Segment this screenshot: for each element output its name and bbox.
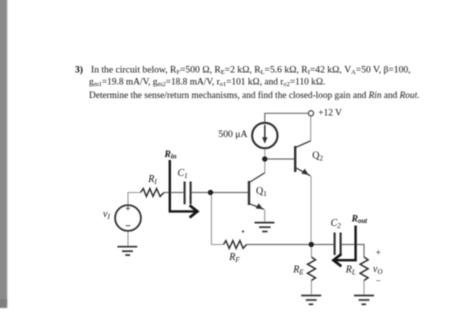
terminal +12V <box>309 111 314 116</box>
svg-text:In the circuit below, RF=500 Ω: In the circuit below, RF=500 Ω, RE=2 kΩ,… <box>91 64 411 76</box>
wire C1 to Q1 base <box>192 192 248 194</box>
speck artifact <box>242 230 244 232</box>
svg-text:C2: C2 <box>331 218 342 230</box>
current source I 500uA <box>252 123 277 148</box>
resistor RE <box>308 257 316 281</box>
wire vI to R_I <box>128 193 141 206</box>
ground (vI) <box>117 247 137 255</box>
svg-text:+12 V: +12 V <box>318 108 342 118</box>
svg-text:Rout: Rout <box>351 215 369 225</box>
svg-text:gm1=19.8 mA/V, gm2=18.8 mA/V,: gm1=19.8 mA/V, gm2=18.8 mA/V, ro1=101 kΩ… <box>89 77 325 88</box>
capacitor C2 <box>335 233 341 256</box>
wire output node to RE <box>310 245 312 258</box>
wire feedback node down to RF <box>211 193 223 245</box>
svg-text:Q1: Q1 <box>256 186 267 198</box>
svg-text:RL: RL <box>345 265 356 277</box>
Rout measure arrow <box>334 226 356 267</box>
svg-text:−: − <box>376 275 381 285</box>
svg-text:RF: RF <box>228 252 240 264</box>
svg-text:Determine the sense/return mec: Determine the sense/return mechanisms, a… <box>89 90 420 101</box>
wire C2 to RL corner <box>341 245 364 258</box>
source vI <box>115 205 141 231</box>
resistor R_I <box>141 189 165 197</box>
wire Q2 collector to +12V terminal <box>310 116 312 141</box>
capacitor C1 <box>185 182 191 205</box>
svg-text:Rin: Rin <box>164 150 177 160</box>
ground (Q1 emitter) <box>255 223 275 232</box>
resistor RF <box>224 241 247 249</box>
svg-text:RI: RI <box>147 174 157 186</box>
svg-text:500 μA: 500 μA <box>218 129 247 140</box>
svg-text:C1: C1 <box>178 168 188 180</box>
page left edge shadow bar <box>0 0 7 308</box>
resistor RL <box>360 257 368 281</box>
svg-text:vI: vI <box>103 209 110 221</box>
svg-text:+: + <box>376 247 381 257</box>
wire vI to ground <box>127 231 129 246</box>
transistor Q2 <box>295 141 311 176</box>
wire current source to node A <box>264 148 266 159</box>
node A junction dot <box>262 156 267 161</box>
wire +12V rail to current source <box>265 113 309 123</box>
wire Q1 emitter to ground <box>264 210 266 223</box>
Rin measure arrow <box>170 160 198 218</box>
output node junction dot <box>309 242 314 247</box>
svg-text:−: − <box>125 221 131 232</box>
wire RL to ground <box>363 281 365 296</box>
feedback node junction dot <box>208 190 213 195</box>
svg-text:RE: RE <box>292 265 304 277</box>
svg-text:+: + <box>125 204 130 214</box>
ground (RL) <box>354 296 374 305</box>
wire node A down to Q1 collector <box>264 159 266 173</box>
svg-text:3): 3) <box>75 64 83 75</box>
wire node A to Q2 base <box>265 158 294 160</box>
wire output node to C2 <box>311 244 334 246</box>
wire R_I to C1 <box>164 192 183 194</box>
transistor Q1 <box>249 173 265 210</box>
ground (RE) <box>301 296 321 305</box>
svg-text:Q2: Q2 <box>312 150 323 162</box>
wire RE to ground <box>310 281 312 296</box>
svg-text:vO: vO <box>373 264 383 276</box>
wire Q2 emitter down to output node <box>310 176 312 245</box>
wire RF to output node <box>247 244 312 246</box>
